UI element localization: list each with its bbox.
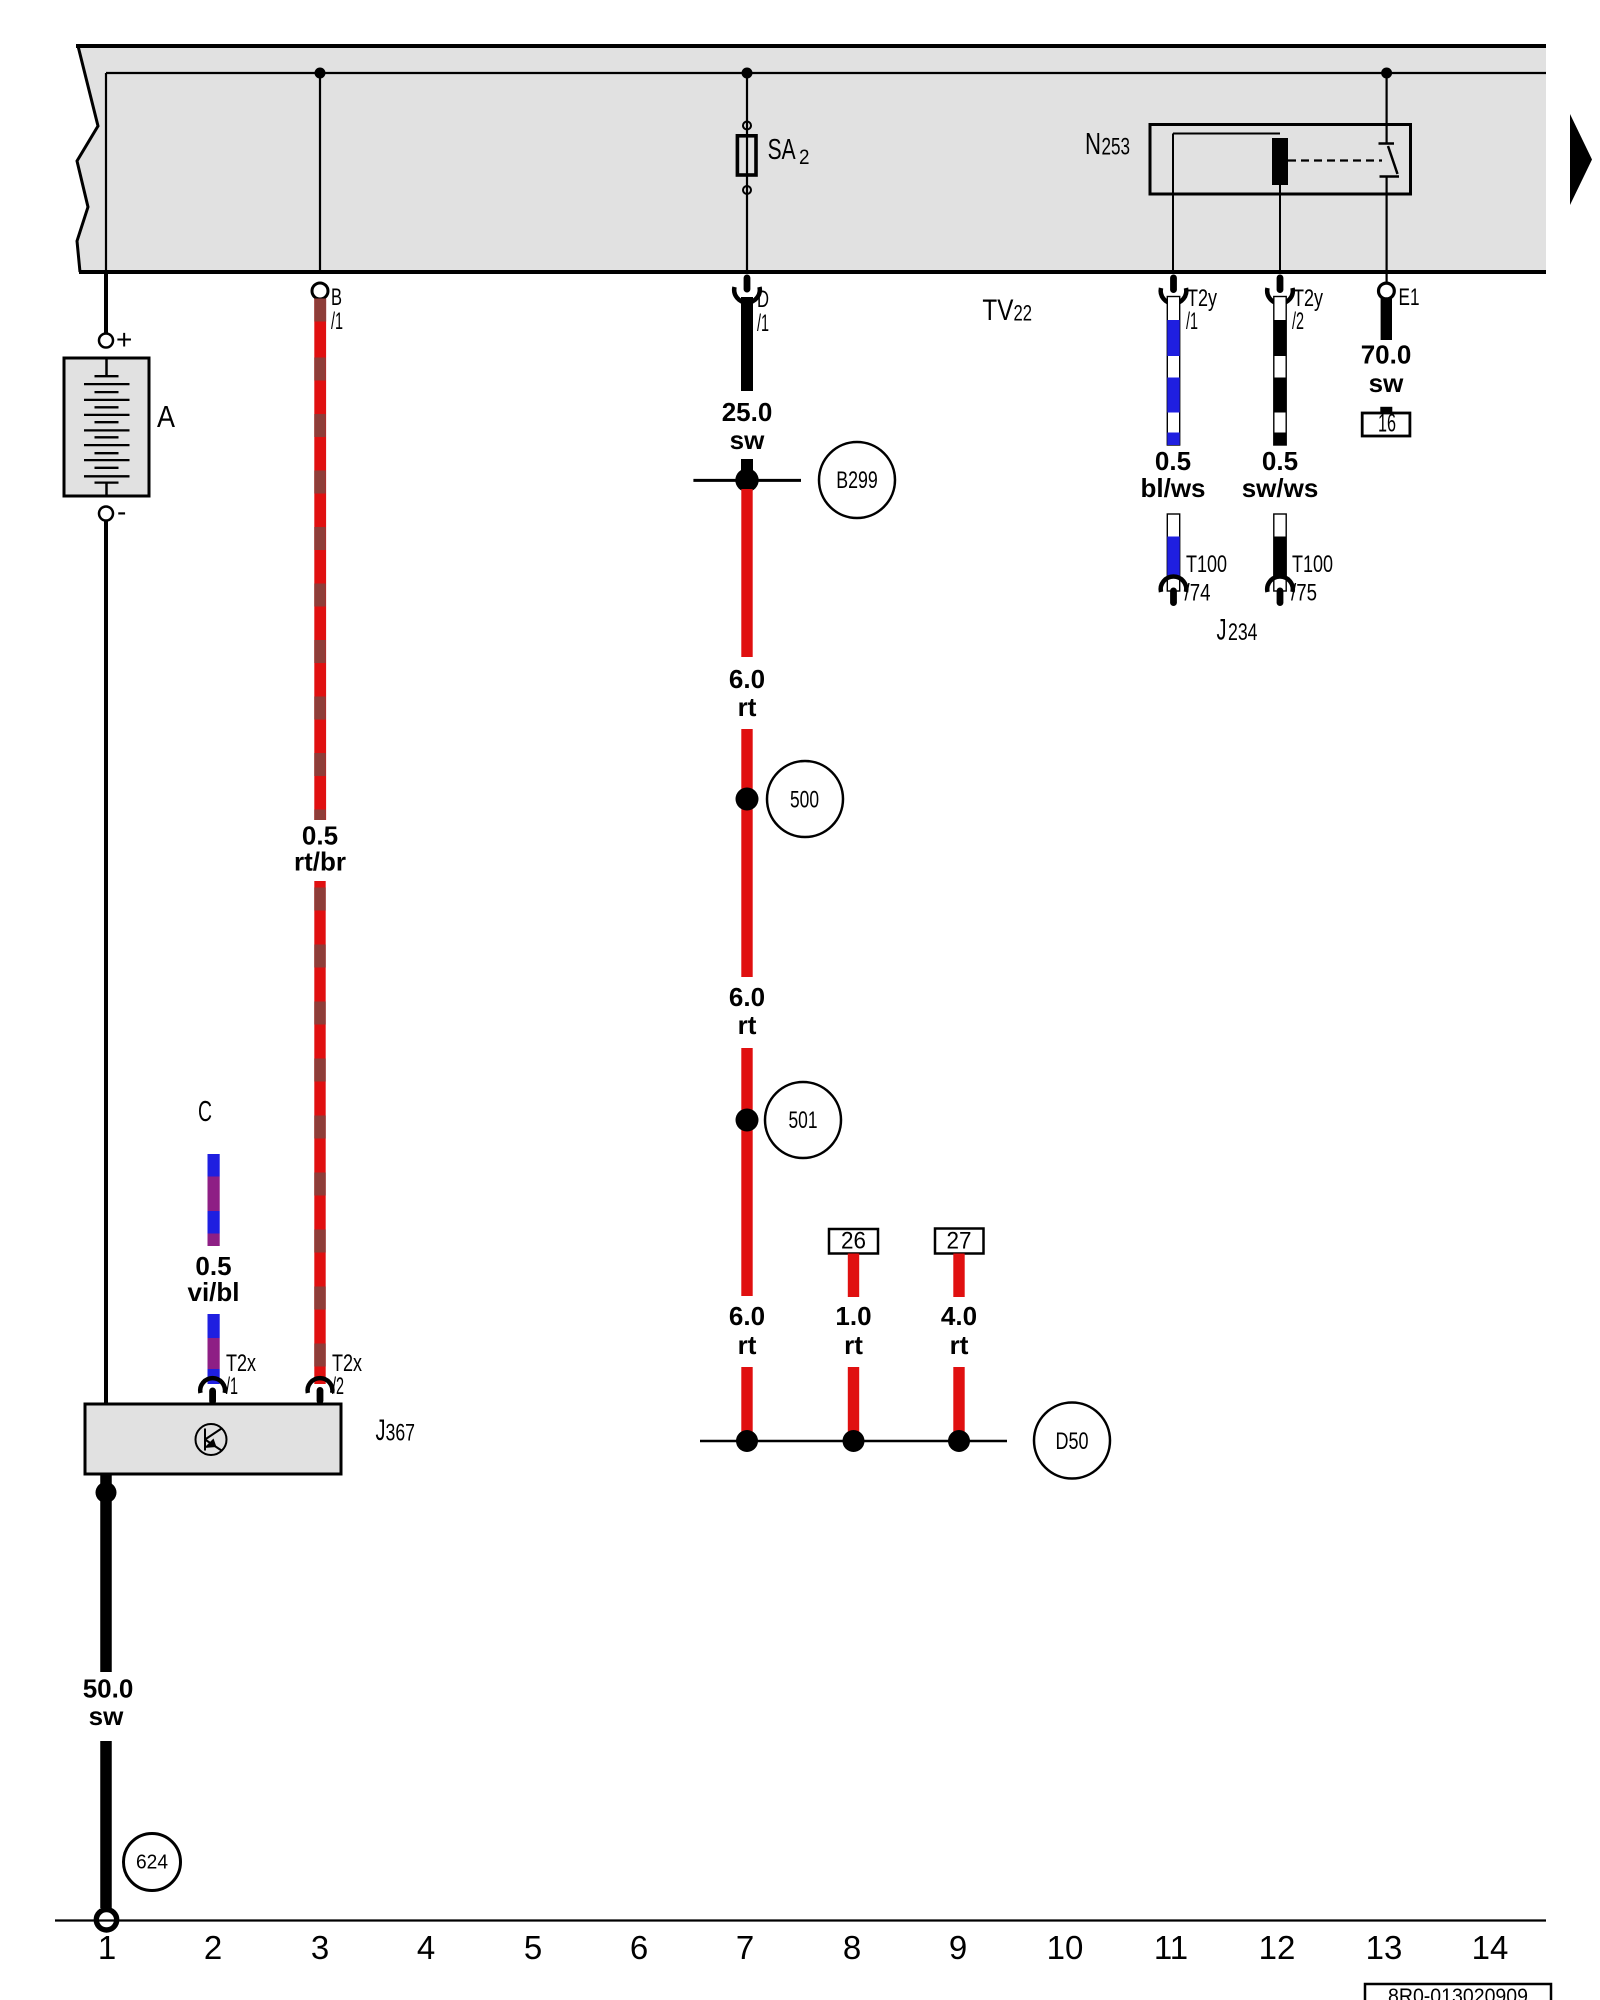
wire 0.5 vi/bl lower: [208, 1314, 220, 1384]
svg-text:T100: T100: [1292, 551, 1333, 578]
svg-text:/1: /1: [1186, 308, 1198, 335]
harness label TV22: [982, 294, 1032, 327]
svg-text:6: 6: [630, 1929, 648, 1966]
drawing number box 8R0-013020909: [1365, 1984, 1551, 2000]
svg-text:25.0: 25.0: [722, 397, 773, 427]
svg-text:bl/ws: bl/ws: [1140, 473, 1205, 503]
wire 4.0 rt upper: [953, 1254, 964, 1298]
fuse SA2: [737, 122, 809, 195]
junction dot D50 c: [948, 1430, 970, 1452]
node label circle 500: [767, 761, 843, 837]
svg-text:/2: /2: [1292, 308, 1304, 335]
svg-text:367: 367: [386, 1420, 416, 1447]
svg-text:+: +: [116, 324, 132, 355]
svg-text:6.0: 6.0: [729, 1301, 765, 1331]
svg-text:14: 14: [1472, 1929, 1509, 1966]
svg-text:3: 3: [311, 1929, 329, 1966]
svg-text:SA: SA: [768, 134, 796, 166]
svg-text:0.5: 0.5: [1262, 446, 1298, 476]
ground terminal: [96, 1910, 116, 1930]
terminal E1: [1379, 283, 1420, 311]
connector T2x/2: [308, 1350, 362, 1404]
wire 0.5 bl/ws label: [1140, 446, 1205, 503]
svg-text:6.0: 6.0: [729, 982, 765, 1012]
wire to fuse SA2: [746, 73, 748, 272]
connector T100/75: [1267, 551, 1333, 607]
connector T100/74: [1161, 551, 1227, 607]
svg-text:26: 26: [841, 1228, 866, 1255]
junction dot below J367: [96, 1482, 117, 1503]
wire 6.0 rt segment 1: [741, 489, 752, 657]
wire 0.5 bl/ws lower: [1167, 514, 1179, 591]
svg-text:-: -: [117, 496, 126, 527]
continuation arrow: [1570, 114, 1592, 205]
junction dot at node 501: [736, 1109, 759, 1132]
svg-text:rt/br: rt/br: [294, 847, 346, 877]
svg-text:sw: sw: [89, 1701, 124, 1731]
connector T2x/1: [200, 1350, 256, 1405]
wire 0.5 vi/bl label: [187, 1251, 239, 1307]
wire 25.0 sw: [741, 297, 753, 391]
node label circle B299: [819, 442, 895, 518]
control unit J367 battery monitor: [85, 1404, 415, 1474]
relay coil: [1272, 138, 1288, 185]
svg-text:501: 501: [789, 1107, 818, 1134]
svg-text:4.0: 4.0: [941, 1301, 977, 1331]
svg-text:13: 13: [1366, 1929, 1403, 1966]
svg-text:5: 5: [524, 1929, 542, 1966]
wire 0.5 vi/bl upper: [208, 1154, 220, 1246]
grid column numbers: [98, 1929, 1509, 1966]
svg-text:0.5: 0.5: [1155, 446, 1191, 476]
wire battery negative to J367: [104, 521, 108, 1405]
svg-text:/74: /74: [1185, 580, 1211, 607]
svg-text:22: 22: [1014, 301, 1033, 326]
junction dot D50 b: [843, 1430, 865, 1452]
terminal 16 box: [1362, 407, 1410, 438]
wire 1.0 rt label: [835, 1301, 871, 1360]
svg-text:/2: /2: [332, 1373, 344, 1400]
svg-text:E1: E1: [1399, 284, 1420, 311]
svg-text:B299: B299: [836, 467, 878, 494]
connector T2y/2: [1267, 275, 1323, 336]
terminal B/1: [312, 283, 343, 335]
junction dot at SA2 branch: [742, 68, 753, 79]
junction dot at relay switch branch: [1381, 68, 1392, 79]
junction dot at node 500: [736, 788, 759, 811]
wiring harness bus band: [76, 46, 1546, 272]
svg-text:TV: TV: [982, 294, 1013, 327]
node D50 junction rail: [700, 1440, 1007, 1443]
wire 4.0 rt label: [941, 1301, 977, 1360]
connector D/1: [734, 275, 769, 338]
svg-text:2: 2: [799, 146, 810, 169]
wire to terminal B: [319, 73, 321, 272]
svg-text:C: C: [198, 1096, 212, 1128]
svg-text:J: J: [1217, 614, 1227, 647]
svg-text:A: A: [157, 399, 175, 434]
wire 1.0 rt upper: [848, 1254, 859, 1298]
svg-text:8R0-013020909: 8R0-013020909: [1388, 1985, 1528, 2000]
svg-text:rt: rt: [738, 1330, 757, 1360]
svg-text:253: 253: [1102, 134, 1131, 161]
svg-text:/1: /1: [757, 310, 769, 337]
svg-text:10: 10: [1047, 1929, 1084, 1966]
wire 0.5 rt/br upper: [314, 299, 326, 821]
svg-text:11: 11: [1154, 1929, 1188, 1966]
wire 0.5 sw/ws label: [1242, 446, 1319, 503]
ground location circle 624: [124, 1834, 181, 1891]
svg-text:rt: rt: [738, 1010, 757, 1040]
svg-text:sw/ws: sw/ws: [1242, 473, 1319, 503]
node B299 junction: [693, 469, 801, 492]
control unit label J234: [1217, 614, 1258, 647]
svg-text:rt: rt: [950, 1330, 969, 1360]
terminal box 27: [935, 1228, 984, 1255]
svg-text:D: D: [757, 286, 769, 313]
wire stub into node B299: [741, 459, 753, 480]
svg-text:624: 624: [136, 1852, 168, 1874]
node label circle D50: [1034, 1403, 1110, 1479]
svg-text:vi/bl: vi/bl: [187, 1277, 239, 1307]
ground rail baseline: [55, 1919, 1546, 1921]
wire 70.0 sw: [1381, 299, 1392, 341]
svg-text:rt: rt: [844, 1330, 863, 1360]
svg-text:sw: sw: [1369, 368, 1404, 398]
wire 4.0 rt lower: [953, 1367, 964, 1441]
svg-text:rt: rt: [738, 692, 757, 722]
svg-text:2: 2: [204, 1929, 222, 1966]
svg-text:B: B: [331, 284, 342, 311]
connector T2y/1: [1161, 275, 1217, 336]
wire 0.5 rt/br lower: [314, 881, 325, 1384]
wire 50.0 sw upper: [100, 1474, 112, 1672]
wire 6.0 rt label 1: [729, 664, 765, 722]
wire 6.0 rt segment 4: [741, 1367, 752, 1441]
wire 50.0 sw lower: [100, 1741, 112, 1908]
svg-text:70.0: 70.0: [1361, 340, 1412, 370]
wire coil pin 2: [1279, 185, 1281, 272]
wire 30-bus horizontal: [106, 73, 1546, 272]
svg-text:D50: D50: [1056, 1428, 1089, 1455]
svg-text:16: 16: [1378, 410, 1396, 438]
svg-text:T100: T100: [1186, 551, 1227, 578]
svg-text:8: 8: [843, 1929, 861, 1966]
battery A: [64, 358, 175, 496]
wire 50.0 sw label: [83, 1674, 134, 1732]
relay switch contact: [1379, 73, 1400, 284]
wire 25.0 sw label: [722, 397, 773, 455]
svg-text:1.0: 1.0: [835, 1301, 871, 1331]
relay N253: [1085, 125, 1411, 195]
wire 6.0 rt segment 3: [741, 1048, 752, 1296]
svg-text:50.0: 50.0: [83, 1674, 134, 1704]
battery positive terminal: [99, 324, 132, 355]
svg-text:N: N: [1085, 126, 1101, 161]
svg-text:/1: /1: [331, 308, 343, 335]
svg-text:234: 234: [1228, 619, 1258, 646]
svg-text:9: 9: [949, 1929, 967, 1966]
node label circle 501: [765, 1082, 841, 1158]
svg-text:/1: /1: [226, 1373, 238, 1400]
svg-text:1: 1: [98, 1929, 116, 1966]
svg-text:sw: sw: [730, 425, 765, 455]
svg-text:27: 27: [947, 1228, 972, 1255]
wire 0.5 sw/ws lower: [1274, 514, 1286, 591]
wire 6.0 rt label 3: [729, 1301, 765, 1360]
wire 6.0 rt segment 2: [741, 729, 752, 977]
svg-text:6.0: 6.0: [729, 664, 765, 694]
svg-text:4: 4: [417, 1929, 435, 1966]
terminal box 26: [829, 1228, 878, 1255]
relay actuating dashed link: [1288, 159, 1382, 161]
junction dot at B branch: [315, 68, 326, 79]
wire 1.0 rt lower: [848, 1367, 859, 1441]
svg-text:7: 7: [736, 1929, 754, 1966]
svg-text:/75: /75: [1291, 580, 1317, 607]
svg-text:J: J: [376, 1414, 386, 1447]
wire 70.0 sw label: [1361, 340, 1412, 399]
wire 6.0 rt label 2: [729, 982, 765, 1040]
junction dot D50 a: [736, 1430, 758, 1452]
wire coil pin 1: [1173, 134, 1280, 273]
wire 0.5 rt/br label: [294, 821, 346, 877]
svg-text:12: 12: [1259, 1929, 1296, 1966]
wire 0.5 bl/ws upper: [1167, 297, 1179, 446]
svg-text:500: 500: [790, 787, 819, 814]
wire bus to battery positive: [104, 272, 108, 334]
wire 0.5 sw/ws upper: [1274, 297, 1286, 446]
battery negative terminal: [99, 496, 126, 527]
